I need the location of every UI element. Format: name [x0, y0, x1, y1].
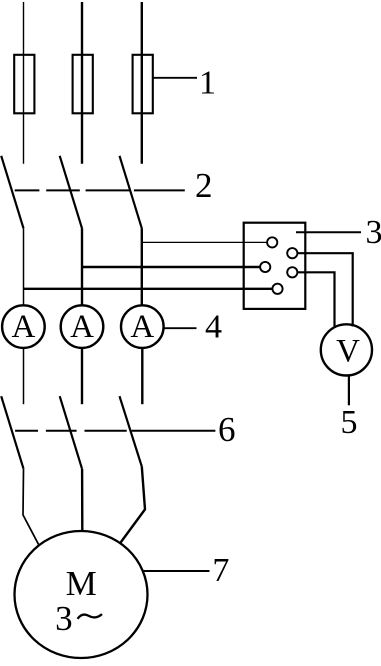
wire phase L3 top: [141, 2, 143, 164]
wire L3 switch to ammeter: [141, 228, 143, 305]
switch QS2 blade pole 3: [120, 396, 142, 466]
voltmeter PV circle: [321, 324, 372, 375]
switch QS2 blade pole 1: [1, 396, 23, 469]
svg-text:A: A: [130, 309, 154, 345]
switch QS2 blade pole 2: [60, 396, 82, 469]
wire voltmeter bottom stub: [348, 375, 350, 405]
wire switch QS2 pole3 to motor: [121, 467, 146, 543]
wire tap L1 to terminal c3: [24, 288, 273, 290]
switch QS2 linkage dashed line: [15, 430, 215, 432]
svg-text:6: 6: [218, 410, 236, 449]
fuse FU2: [73, 55, 93, 114]
label leader line 1: [153, 77, 197, 79]
wire L3 ammeter to switch QS2: [141, 348, 143, 405]
terminal c3: [272, 284, 282, 294]
wire L1 ammeter to switch QS2: [23, 348, 25, 405]
fuse FU3: [133, 55, 153, 114]
ammeter PA2 circle: [61, 305, 104, 348]
motor M circle: [15, 531, 148, 658]
wire phase L2 top: [81, 2, 83, 164]
terminal c5: [287, 267, 297, 277]
wire switch QS2 pole2 to motor: [81, 469, 84, 532]
wire L1 switch to ammeter: [23, 228, 25, 305]
label leader line 3: [296, 231, 361, 233]
svg-text:A: A: [11, 309, 35, 345]
wire L2 switch to ammeter: [81, 228, 83, 305]
wire terminal c4 to voltmeter: [297, 253, 352, 326]
svg-text:M: M: [66, 564, 97, 603]
switch QS1 blade pole 1: [1, 156, 23, 229]
svg-text:5: 5: [341, 404, 358, 441]
svg-text:A: A: [70, 309, 94, 345]
label leader line 4: [164, 327, 197, 329]
motor tilde symbol: [78, 614, 103, 619]
terminal c2: [260, 262, 270, 272]
svg-text:4: 4: [205, 308, 222, 345]
terminal c1: [267, 237, 277, 247]
wire switch QS2 pole1 to motor: [23, 469, 39, 546]
terminal c4: [287, 248, 297, 258]
wire L2 ammeter to switch QS2: [81, 348, 83, 405]
ammeter PA3 circle: [121, 305, 164, 348]
wire tap L2 to terminal c2: [82, 266, 260, 268]
svg-text:3: 3: [55, 599, 73, 638]
wire phase L1 top: [23, 2, 25, 164]
svg-text:7: 7: [212, 552, 229, 589]
svg-text:2: 2: [195, 166, 213, 205]
switch QS1 blade pole 3: [120, 156, 142, 229]
terminal box (voltmeter selector): [244, 223, 306, 309]
fuse FU1: [14, 55, 34, 114]
switch QS1 blade pole 2: [60, 156, 82, 229]
svg-text:1: 1: [199, 65, 216, 102]
label leader line 7: [143, 570, 210, 572]
wire tap L3 to terminal c1: [142, 241, 267, 243]
switch QS1 linkage dashed line: [15, 189, 185, 191]
wire terminal c5 to voltmeter: [297, 272, 334, 327]
svg-text:V: V: [336, 333, 360, 369]
svg-text:3: 3: [366, 214, 381, 251]
ammeter PA1 circle: [2, 305, 45, 348]
